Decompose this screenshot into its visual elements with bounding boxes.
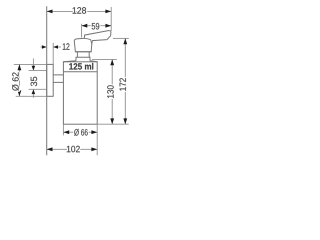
dimension 172 line — [124, 38, 126, 124]
bottle label text 125 ml — [69, 63, 93, 70]
dimension D66 text — [74, 129, 88, 136]
cup bottom edge — [75, 51, 91, 53]
dimension 12 dash — [53, 46, 61, 48]
dimension D66 line — [63, 131, 97, 133]
dimension 172 text — [119, 78, 125, 91]
wall line — [46, 6, 48, 155]
extension line lever bottom right — [113, 37, 129, 39]
dimension 35 top leader — [32, 59, 34, 67]
extension line 59 left — [81, 24, 83, 38]
extension line neck top right — [92, 58, 117, 60]
dimension D62 text — [12, 72, 19, 90]
dimension 59 line — [82, 25, 112, 27]
dimension 12 outside arrow right — [53, 45, 58, 49]
extension line bottle bottom right — [97, 123, 129, 125]
dimension 12 text — [63, 43, 70, 49]
dimension 59 text — [92, 23, 100, 30]
dimension 102 arrows — [47, 147, 97, 151]
label box line — [63, 71, 97, 73]
dimension 130 text — [107, 85, 114, 98]
bottle body — [63, 62, 97, 124]
extension line plate top — [14, 63, 47, 65]
dimension 35 top arrow — [32, 66, 36, 71]
dimension 128 line — [47, 10, 112, 12]
dimension 35 bottom tick — [29, 88, 46, 90]
dimension 12 outside arrow left — [42, 45, 47, 49]
dimension 172 arrows — [123, 38, 127, 124]
dimension D66 arrows — [63, 130, 97, 134]
dimension 102 line — [47, 148, 97, 150]
extension line plate bottom — [16, 95, 47, 97]
dimension 128 arrows — [47, 10, 112, 14]
extension line bottle bottom right vertical — [96, 124, 98, 155]
dimension 35 top tick — [29, 70, 46, 72]
dimension D62 arrows — [18, 64, 22, 96]
extension line lever tip — [110, 7, 112, 31]
dimension 130 arrows — [110, 59, 114, 124]
dimension D62 line — [18, 64, 20, 96]
dimension 35 text — [31, 77, 38, 86]
neck ring — [77, 52, 89, 58]
pump head and lever — [74, 31, 111, 52]
dimension 35 bottom leader — [32, 94, 34, 98]
dimension 35 bottom arrow — [32, 89, 36, 94]
dimension 128 text — [73, 7, 87, 14]
bottle shoulder — [63, 61, 97, 62]
dimension 59 arrows — [82, 24, 112, 28]
neck flange — [76, 57, 90, 60]
bracket arm — [53, 75, 63, 83]
wall plate (escutcheon side view) — [47, 64, 54, 96]
extension line bottle bottom left — [62, 124, 64, 135]
cup rim under lever — [84, 38, 92, 44]
extension line plate front — [52, 43, 54, 64]
dimension 102 text — [67, 146, 80, 153]
dimension 130 line — [111, 59, 113, 124]
dimension 12 outside arrow left tail — [41, 46, 43, 48]
